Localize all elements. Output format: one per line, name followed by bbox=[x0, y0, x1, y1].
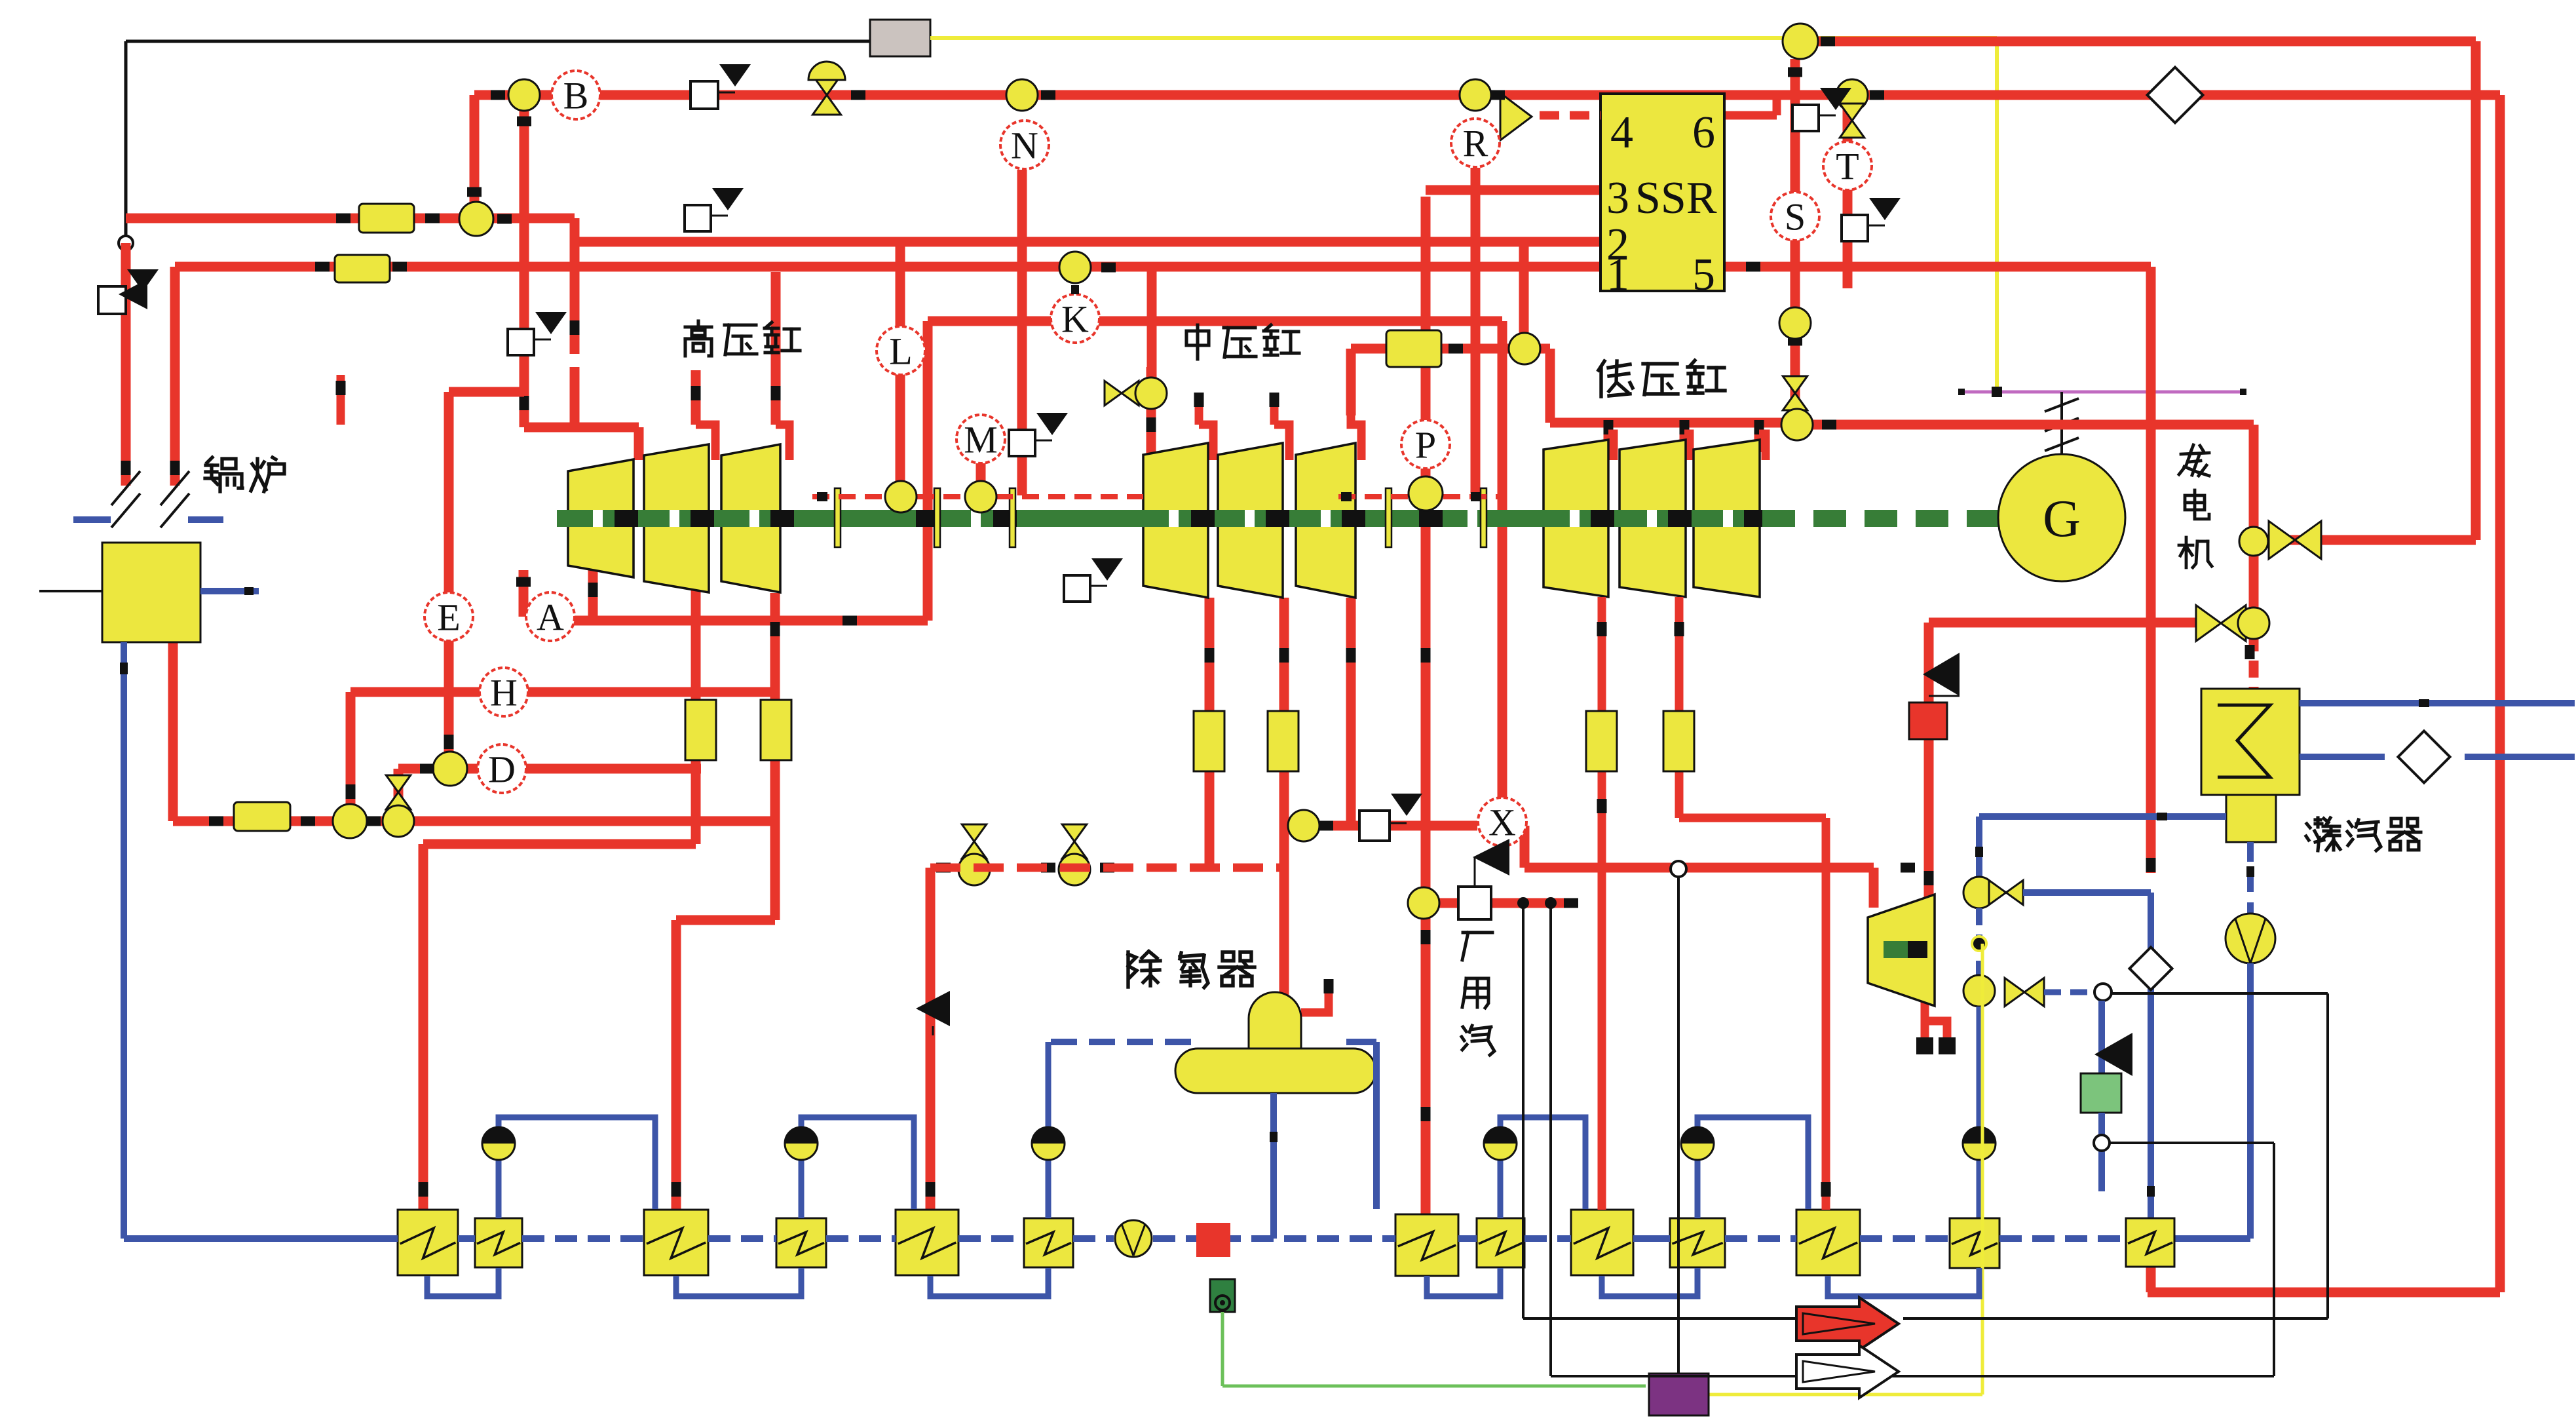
green drain signal bbox=[1222, 1312, 1646, 1386]
deaerator condensate in bbox=[1051, 1042, 1376, 1209]
label boiler bbox=[205, 457, 284, 491]
label condenser bbox=[2306, 818, 2421, 851]
condenser makeup line bbox=[1979, 813, 2226, 820]
sensor circle T bbox=[1836, 79, 1884, 111]
svg-text:H: H bbox=[490, 671, 518, 714]
relief mid bbox=[1009, 413, 1068, 456]
svg-text:A: A bbox=[537, 596, 564, 638]
sensor circle loop2 bbox=[383, 805, 414, 837]
label deaerator bbox=[1128, 952, 1255, 988]
A cold-reheat line y947 bbox=[527, 565, 928, 626]
sensor circle loop1 bbox=[333, 804, 381, 838]
boiler left wire bbox=[39, 590, 102, 592]
shaft to generator dashes bbox=[1762, 510, 1999, 527]
R sensor column bbox=[1471, 168, 1481, 493]
svg-text:P: P bbox=[1415, 423, 1436, 466]
governor purple box bbox=[1649, 1374, 1709, 1415]
E extraction line bbox=[444, 392, 525, 769]
sensor circle on H0 bbox=[1783, 24, 1835, 59]
transducer gray box bbox=[870, 20, 930, 56]
svg-text:M: M bbox=[964, 418, 998, 461]
sensor circle S bottom bbox=[1781, 409, 1813, 440]
yellow signal wire to generator bbox=[1995, 38, 1999, 392]
A stub bbox=[516, 570, 531, 617]
label LP bbox=[1599, 360, 1725, 396]
tag X bbox=[1478, 798, 1526, 846]
sensor circle R bbox=[1460, 79, 1491, 111]
tag M bbox=[957, 415, 1005, 463]
valve S column bbox=[1783, 376, 1807, 410]
IP exhaust 2 to deaerator bbox=[1279, 598, 1289, 997]
sensor circle aux steam bbox=[1408, 887, 1439, 919]
svg-text:6: 6 bbox=[1692, 107, 1715, 158]
node governor line bbox=[1671, 861, 1686, 877]
relief B column bbox=[508, 312, 567, 355]
svg-text:T: T bbox=[1836, 145, 1859, 187]
boiler feed loop y1253 bbox=[173, 642, 775, 821]
boiler blue downcomer bbox=[120, 642, 128, 1239]
L sensor column bbox=[896, 242, 905, 488]
label HP bbox=[685, 321, 800, 356]
signal to white arrow bbox=[1549, 903, 1552, 1376]
svg-text:L: L bbox=[889, 330, 912, 372]
B branch elbow bbox=[467, 95, 482, 219]
heater3 feed route bbox=[672, 920, 776, 1210]
drain control valve bbox=[1210, 1279, 1235, 1312]
turbine shaft bbox=[557, 510, 1768, 527]
yellow drain signal bbox=[1705, 944, 1982, 1395]
tag A bbox=[526, 592, 575, 641]
check valve deaerator feed bbox=[916, 991, 950, 1035]
yellow signal wire top bbox=[930, 36, 1997, 40]
generator valve right branch bbox=[2273, 535, 2324, 545]
flow element y333 bbox=[336, 204, 440, 233]
tag E bbox=[425, 592, 473, 641]
shaft probe line bbox=[812, 492, 1502, 501]
sensor circle left of B bbox=[491, 79, 540, 111]
recirc drop 2 bbox=[1972, 908, 1986, 975]
svg-text:R: R bbox=[1463, 122, 1488, 164]
SSR pin4 triangle bbox=[1490, 90, 1601, 141]
sensor circle S column bbox=[1779, 307, 1811, 339]
generator cooling line y648 bbox=[1794, 420, 2254, 542]
heaterA drop bbox=[1963, 1007, 1996, 1218]
extraction blocks bbox=[685, 700, 1694, 771]
LP exhaust 2 bbox=[1675, 597, 1831, 1210]
deaerator bbox=[1175, 992, 1376, 1093]
A riser to seal header bbox=[923, 321, 933, 621]
tag H bbox=[480, 668, 528, 716]
heater drain loops bbox=[427, 1268, 1979, 1296]
sensor circle LP feed bbox=[1509, 333, 1540, 364]
makeup stub bbox=[2098, 1113, 2105, 1191]
heater level indicators bbox=[482, 1127, 1714, 1160]
sensor circle X line bbox=[1288, 810, 1333, 841]
generator earth hatch bbox=[2045, 392, 2079, 454]
tag T bbox=[1823, 142, 1872, 190]
tag B bbox=[552, 71, 600, 119]
vent stub x520 bbox=[336, 375, 346, 425]
white arrow signal loop bbox=[1551, 1135, 2274, 1376]
X column bbox=[1498, 321, 1507, 868]
label IP bbox=[1186, 325, 1299, 359]
bearing sensor 3 bbox=[1409, 476, 1443, 510]
svg-text:5: 5 bbox=[1692, 250, 1715, 300]
heater5 feed bbox=[926, 868, 936, 1210]
hotwell bbox=[2226, 795, 2276, 842]
signal wire left vertical bbox=[119, 41, 133, 250]
arrow hot output bbox=[1796, 1298, 1899, 1350]
aux steam station bbox=[1458, 887, 1491, 919]
boiler top blue stubs bbox=[73, 516, 223, 523]
feedwater main blue line bbox=[124, 1235, 2126, 1242]
sensor circle y333 bbox=[459, 202, 512, 236]
main steam header H0 bbox=[1816, 41, 2476, 540]
relief X line bbox=[1359, 794, 1422, 841]
tag N bbox=[1000, 121, 1049, 169]
IP turbine casing bbox=[1143, 443, 1355, 598]
P column ticks bbox=[1421, 648, 1431, 1121]
hot reheat header H1 bbox=[474, 95, 2500, 1292]
tag K bbox=[1051, 294, 1099, 343]
sensor circle K bbox=[1059, 252, 1116, 294]
recirc valve 2 bbox=[1963, 975, 2095, 1007]
IP inlet left bbox=[1146, 367, 1156, 459]
X supply line y1260 bbox=[1284, 821, 1477, 831]
deaerator outlet bbox=[1270, 1093, 1278, 1239]
deaerator feed valve 1 bbox=[936, 824, 990, 885]
gen valve group 2 bbox=[2196, 606, 2269, 642]
feedwater line y1288 bbox=[419, 844, 696, 1210]
boiler pipe breaks bbox=[111, 471, 189, 528]
aux turbine bbox=[1868, 895, 1935, 1006]
tag P bbox=[1401, 420, 1450, 469]
condensate pump bbox=[2226, 914, 2275, 963]
feed pump bbox=[1115, 1220, 1152, 1257]
signal to red arrow bbox=[1522, 903, 1525, 1318]
HP exhaust 1 bbox=[691, 581, 701, 844]
H heater line y1056 bbox=[346, 692, 776, 821]
LP exhaust duct to condenser bbox=[1929, 541, 2255, 689]
B circle stub bbox=[517, 109, 531, 427]
relief IP gland bbox=[1064, 558, 1123, 602]
svg-text:1: 1 bbox=[1606, 250, 1629, 300]
generator bbox=[1998, 454, 2125, 581]
D heater line y1173 bbox=[398, 769, 701, 821]
flow element y532 bbox=[1386, 330, 1463, 367]
recirc drop 1 bbox=[1975, 817, 1983, 877]
SSR relay block bbox=[1601, 94, 1724, 300]
deaerator feed header bbox=[930, 864, 1284, 872]
HP exhaust 2 bbox=[770, 593, 780, 920]
valve above T bbox=[1840, 104, 1864, 138]
sensor circle N bbox=[1006, 79, 1055, 111]
boiler right blue stub bbox=[200, 587, 259, 595]
svg-text:K: K bbox=[1061, 298, 1089, 340]
svg-text:E: E bbox=[437, 596, 460, 638]
flow element y1253 bbox=[209, 802, 315, 831]
IP exhaust 1 bbox=[1205, 598, 1215, 868]
LP inlet header y645 bbox=[1550, 418, 1794, 428]
M sensor stub bbox=[976, 463, 986, 482]
node recirc bbox=[2094, 984, 2112, 1001]
makeup check valve bbox=[2094, 1001, 2132, 1076]
condensate to heaterB bbox=[2174, 963, 2250, 1239]
signal to governor bbox=[1677, 877, 1680, 1374]
HP inlet stub 2 bbox=[691, 370, 716, 460]
relief valve H1-right bbox=[1792, 88, 1851, 131]
tag R bbox=[1451, 119, 1500, 167]
red arrow signal loop bbox=[1523, 993, 2328, 1318]
svg-text:4: 4 bbox=[1610, 107, 1633, 158]
SSR pin6 link bbox=[1724, 95, 1777, 115]
svg-text:X: X bbox=[1488, 801, 1516, 843]
svg-text:N: N bbox=[1011, 124, 1038, 166]
cold reheat line y333 bbox=[126, 218, 639, 460]
relief valve H1-left bbox=[691, 64, 751, 109]
shaft-seal line y490 bbox=[928, 317, 1502, 326]
boiler inlet ticks bbox=[121, 461, 180, 475]
condenser cooling in bbox=[2300, 731, 2575, 782]
relief y333 bbox=[685, 188, 744, 231]
tag S bbox=[1771, 192, 1819, 241]
aux steam line y1378 bbox=[1426, 897, 1578, 909]
tag L bbox=[877, 326, 925, 375]
HP inlet 3 feed bbox=[771, 272, 790, 460]
excitation magenta wire bbox=[1958, 387, 2246, 397]
svg-text:3: 3 bbox=[1606, 173, 1629, 223]
svg-text:SSR: SSR bbox=[1635, 173, 1717, 223]
svg-text:S: S bbox=[1785, 195, 1806, 238]
IP exhaust 3 / P column bbox=[1346, 598, 1356, 826]
IP inlet header y532 bbox=[1351, 349, 1550, 423]
main steam line y407 to SSR1 bbox=[175, 267, 1601, 486]
check valve below X bbox=[1473, 839, 1509, 886]
valve D branch bbox=[386, 775, 410, 809]
hotwell drop bbox=[2246, 842, 2254, 914]
flow element y407 bbox=[315, 255, 407, 282]
SSR pin3 line bbox=[1426, 185, 1601, 195]
bearing sensor 2 bbox=[965, 481, 996, 512]
bearing sensor 1 bbox=[885, 481, 917, 512]
deaerator pegging elbow bbox=[1301, 979, 1334, 1012]
condenser cooling out bbox=[2300, 699, 2575, 707]
P sensor column bbox=[1421, 197, 1431, 1214]
condensate from heaterB bbox=[2146, 1267, 2156, 1292]
N sensor column bbox=[1017, 170, 1027, 495]
heater level risers bbox=[499, 1042, 1808, 1218]
LP top elbows bbox=[1608, 434, 1766, 460]
shaft bearing slats bbox=[835, 488, 1487, 547]
deaerator feed valve 2 bbox=[1041, 824, 1114, 885]
diamond on H1 bbox=[2148, 67, 2203, 123]
boiler downcomer left bbox=[121, 243, 131, 486]
feed pump motor bbox=[1196, 1223, 1230, 1257]
red block on LP duct bbox=[1909, 702, 1947, 739]
HP turbine casing bbox=[568, 444, 780, 592]
LP exhaust 1 bbox=[1597, 597, 1607, 1210]
X line to LP aux header bbox=[1525, 826, 1915, 908]
check valve LP duct bbox=[1923, 653, 1960, 696]
gen valve group 1 bbox=[2239, 521, 2321, 559]
LP/HP heater row bbox=[398, 1210, 2174, 1276]
boiler box bbox=[102, 543, 200, 642]
IP inlet valve bbox=[1105, 377, 1167, 409]
boiler relief bbox=[98, 269, 159, 314]
svg-text:B: B bbox=[563, 74, 589, 117]
recirc to heaterB bbox=[1963, 877, 2155, 1218]
svg-text:D: D bbox=[488, 748, 516, 790]
label generator bbox=[2179, 445, 2212, 568]
relief below pin5 bbox=[1842, 198, 1901, 241]
T sensor column bbox=[1843, 95, 1853, 288]
signal wire top-left bbox=[126, 40, 870, 43]
sensor circle D bbox=[420, 752, 467, 786]
K branch to IP valve bbox=[1147, 267, 1157, 382]
IP top elbows bbox=[1194, 393, 1362, 460]
SSR pin5 line bbox=[1724, 262, 2156, 874]
LP inlet stubs bbox=[1604, 420, 1764, 452]
LP turbine casing bbox=[1544, 440, 1760, 597]
SSR pin2 line bbox=[575, 242, 1601, 333]
condenser bbox=[2201, 689, 2300, 795]
label aux steam bbox=[1462, 933, 1494, 1055]
tag D bbox=[478, 744, 526, 793]
makeup tank bbox=[2081, 1073, 2121, 1113]
S sensor column bbox=[1788, 59, 1802, 423]
arrow cold output bbox=[1796, 1345, 1899, 1398]
control valve H1 bbox=[808, 62, 865, 115]
aux turbine exhaust bbox=[1916, 994, 1956, 1054]
diamond on recirc bbox=[2129, 947, 2172, 990]
svg-text:G: G bbox=[2043, 490, 2081, 548]
LP exhaust duct riser bbox=[1924, 623, 1934, 908]
